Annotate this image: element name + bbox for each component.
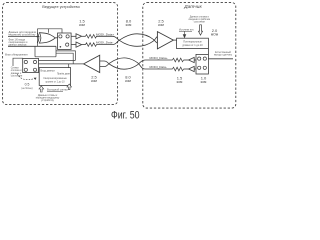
wire: nested run 1 — [56, 51, 75, 61]
wire: run at y57 — [35, 56, 56, 58]
buffer driver 1 — [76, 34, 82, 39]
wire: buffer 2 to resistor R2 — [82, 44, 86, 46]
svg-text:уровни от 1 до 10: уровни от 1 до 10 — [182, 44, 203, 47]
twisted pair lower: wire a — [100, 60, 173, 69]
XOR gate U1 — [39, 33, 55, 43]
wire: input 2 — [8, 45, 56, 47]
wire: label to coupler B — [13, 58, 23, 66]
svg-text:MODI_Data+: MODI_Data+ — [96, 32, 114, 36]
wire: amp output to level block — [173, 39, 176, 41]
svg-text:ведомому устройству: ведомому устройству — [9, 32, 37, 36]
wire: nested run 2 — [56, 53, 73, 64]
wire: riser x35 — [34, 46, 36, 57]
wire: coupler A to buffer 1 — [71, 35, 76, 37]
svg-text:Выходной сигнал: Выходной сигнал — [47, 88, 68, 92]
buffer driver 2 — [76, 42, 82, 47]
wire: gate output — [55, 37, 57, 39]
arrow: into data block top — [67, 68, 70, 71]
resistor R3 — [173, 58, 184, 62]
svg-text:ком: ком — [177, 80, 183, 84]
svg-text:выход к датчику: выход к датчику — [214, 53, 233, 56]
svg-text:устройству: устройству — [41, 99, 54, 102]
dashed annotation arc from response label — [17, 74, 35, 80]
wire: vertical tie x56 — [55, 46, 57, 57]
coupler A (line driver block with terminals) — [58, 33, 72, 50]
svg-text:ком: ком — [79, 23, 85, 27]
data block (master, sync levels) — [39, 68, 70, 86]
wire: top feedback run to coupler A — [37, 29, 62, 33]
svg-text:ком: ком — [201, 80, 207, 84]
wire: level block down to coupler C — [207, 49, 209, 55]
wire: stub into gate top — [48, 29, 50, 33]
svg-text:Ведущее устройство: Ведущее устройство — [42, 4, 80, 9]
sensor dashed enclosure — [143, 3, 236, 109]
svg-text:Фиг. 50: Фиг. 50 — [111, 109, 140, 120]
svg-text:MODI_Data+: MODI_Data+ — [150, 56, 168, 60]
svg-text:0.5: 0.5 — [25, 83, 30, 87]
receive amp (master side) A1 — [84, 55, 100, 72]
buffer driver 3 (points left) — [189, 57, 195, 62]
twisted pair lower: wire b — [100, 58, 173, 69]
hollow arrow up into data block (left) — [39, 86, 44, 92]
svg-text:(не более): (не более) — [21, 88, 32, 90]
svg-text:Вход данных: Вход данных — [41, 70, 56, 73]
wire: input 1 into XOR gate — [8, 36, 40, 38]
wire: buffer 3 to coupler C — [194, 59, 196, 61]
svg-text:уровни от 1 до 10: уровни от 1 до 10 — [46, 81, 66, 83]
svg-text:состоянии: состоянии — [194, 21, 206, 23]
arrow: into level block top — [183, 31, 186, 37]
coupler C (sensor line block) — [196, 54, 208, 74]
svg-text:ком: ком — [91, 79, 97, 83]
wire: R3 to buffer 3 — [184, 59, 189, 61]
master device dashed enclosure — [3, 3, 118, 105]
wire: coupler A to buffer 2 — [71, 44, 76, 46]
svg-text:мОм: мОм — [211, 32, 219, 36]
wire: buffer 1 to resistor R1 — [82, 35, 86, 37]
buffer driver 4 (points left) — [189, 66, 195, 71]
svg-text:Флаг обнаружения: Флаг обнаружения — [5, 53, 28, 57]
svg-text:Приём данн.: Приём данн. — [57, 74, 71, 76]
svg-text:Датчик: Датчик — [183, 4, 202, 10]
level block (Потенциальные уровни) — [177, 38, 209, 48]
resistor R2 — [86, 43, 97, 47]
wire: coupler B to amp tip — [39, 63, 84, 65]
svg-text:Синхронизированные: Синхронизированные — [43, 78, 67, 80]
junction dot — [37, 36, 39, 38]
hollow arrow down into level block — [199, 25, 203, 35]
twisted pair upper: wire b — [96, 34, 158, 45]
svg-text:MODI_Data-: MODI_Data- — [150, 65, 167, 69]
wire: buffer 4 to coupler C — [194, 68, 196, 70]
hollow arrow up into data block (right) — [67, 84, 72, 90]
wire: coupler C output to sensor element — [208, 58, 233, 60]
svg-text:ком: ком — [126, 23, 132, 27]
svg-text:состоянии: состоянии — [11, 74, 23, 77]
svg-text:MODI_Data-: MODI_Data- — [96, 40, 113, 44]
wire: vertical bus left of gate — [36, 29, 38, 47]
receive amp (sensor side) A2 — [157, 32, 173, 49]
resistor R1 — [86, 35, 97, 39]
twisted pair upper: wire a — [96, 36, 158, 46]
svg-text:ком: ком — [125, 79, 131, 83]
coupler B (master receive block) — [23, 58, 39, 72]
resistor R4 — [173, 67, 184, 71]
wire: coupler B to data block run — [39, 59, 76, 61]
svg-text:ком: ком — [158, 23, 164, 27]
wire: R4 to buffer 4 — [184, 68, 189, 70]
